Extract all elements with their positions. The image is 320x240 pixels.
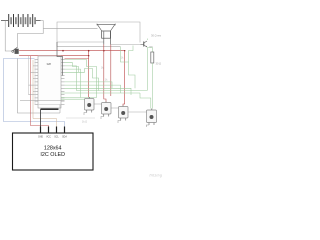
- wire red drop to button C: [123, 51, 125, 106]
- wire hook button C gnd: [118, 121, 121, 124]
- wire speaker loop top: [57, 22, 140, 47]
- svg-text:npn: npn: [149, 46, 154, 49]
- resistor R1 vertical: [147, 48, 154, 109]
- wire battery- to speaker area: [43, 28, 97, 30]
- wire green transistor emitter down: [146, 48, 148, 91]
- wire speaker right pin to transistor: [111, 44, 141, 46]
- svg-text:SDA: SDA: [62, 135, 67, 138]
- wire gray left column 2: [35, 60, 62, 105]
- wire blue left column to SDA: [4, 59, 65, 127]
- wire light gray OLED right: [66, 117, 95, 119]
- wire gray mid horizontal: [57, 46, 121, 48]
- OLED module 128x64 I2C: [13, 127, 94, 171]
- wire black GND drop to OLED: [40, 109, 42, 126]
- wire red drop to button A: [88, 51, 90, 97]
- wire hook button A gnd: [84, 113, 87, 116]
- wire gray stubs to IC left pins: [29, 66, 35, 95]
- wire gray link button A to B: [94, 103, 102, 105]
- wire green maze g12: [129, 46, 134, 63]
- transistor Q1: [141, 41, 148, 47]
- IC U1: [35, 56, 65, 108]
- pushbutton SW-D: [147, 109, 157, 126]
- svg-text:VCC: VCC: [46, 136, 51, 138]
- wire green transistor collector up: [146, 39, 148, 41]
- wire gray link button C to D: [128, 111, 147, 113]
- wire to speaker left pin: [57, 41, 104, 43]
- wire green maze g5: [65, 88, 132, 95]
- wire hook button D gnd: [146, 125, 149, 127]
- svg-text:GND: GND: [38, 136, 43, 138]
- wire tan left column to SCL: [33, 60, 57, 127]
- wire red speaker right pin down: [110, 45, 112, 97]
- wire green maze g2: [65, 66, 148, 91]
- svg-text:128x64: 128x64: [44, 146, 62, 152]
- wire green maze g8: [65, 69, 99, 91]
- wire red lower bus: [19, 55, 89, 57]
- battery BT1 multi-cell pack: [1, 14, 41, 27]
- svg-text:30 Ω res: 30 Ω res: [151, 34, 162, 38]
- wire green maze g7b: [61, 98, 85, 100]
- svg-text:1k Ω: 1k Ω: [82, 121, 87, 124]
- wire battery- loop to switch top: [18, 21, 44, 49]
- junction dots: [62, 50, 64, 52]
- wire hook button B gnd: [101, 117, 104, 120]
- svg-text:SCL: SCL: [54, 136, 59, 138]
- wire green maze g11: [121, 47, 136, 89]
- wire green maze g10: [65, 82, 113, 88]
- wire gray link button B to C: [111, 107, 119, 109]
- wire green maze g7: [61, 60, 97, 98]
- pushbutton SW-A: [85, 97, 95, 113]
- wire green maze g3: [65, 69, 81, 97]
- wire green maze g1: [65, 63, 79, 73]
- wire gray short vertical near chip bottom: [59, 105, 61, 114]
- wire red VCC bus: [19, 50, 125, 52]
- wire green to button D: [140, 93, 151, 109]
- svg-text:I2C OLED: I2C OLED: [40, 152, 65, 158]
- ground bar under IC: [41, 108, 59, 110]
- svg-text:328: 328: [47, 62, 52, 66]
- speaker LS1: [97, 24, 115, 45]
- wire red stub chip top: [65, 58, 89, 60]
- wire green maze g6: [61, 92, 140, 94]
- svg-text:30 Ω: 30 Ω: [156, 62, 162, 66]
- wire red left column to VCC pin: [31, 56, 49, 127]
- wire gray left column: [18, 59, 61, 114]
- switch S1: [12, 47, 19, 54]
- wire green maze g4: [65, 85, 121, 93]
- wire gray below chip: [20, 100, 65, 102]
- pushbutton SW-C: [119, 106, 129, 121]
- svg-text:fritzing: fritzing: [150, 174, 163, 178]
- pushbutton SW-B: [102, 102, 112, 117]
- wire gray left vertical 3: [28, 56, 30, 95]
- wire dark bus at chip right: [57, 42, 63, 76]
- wire battery+ down to switch: [5, 21, 12, 52]
- wire red speaker left pin down to button B: [104, 45, 106, 102]
